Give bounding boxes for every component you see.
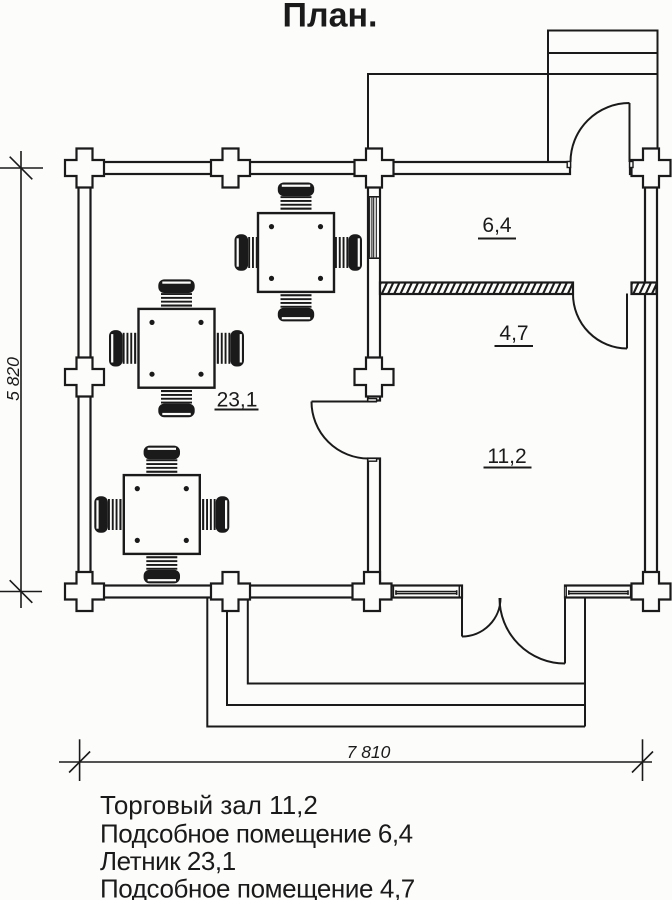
svg-text:23,1: 23,1: [217, 388, 258, 411]
svg-text:11,2: 11,2: [487, 445, 526, 468]
svg-text:5 820: 5 820: [3, 357, 23, 401]
svg-text:Летник 23,1: Летник 23,1: [100, 846, 236, 876]
svg-text:Подсобное помещение 4,7: Подсобное помещение 4,7: [100, 873, 415, 900]
svg-text:Торговый зал 11,2: Торговый зал 11,2: [100, 790, 318, 820]
svg-text:4,7: 4,7: [499, 322, 528, 345]
svg-text:План.: План.: [283, 0, 378, 35]
svg-text:7 810: 7 810: [347, 742, 391, 762]
svg-text:6,4: 6,4: [482, 214, 512, 237]
svg-text:Подсобное помещение 6,4: Подсобное помещение 6,4: [100, 818, 413, 848]
